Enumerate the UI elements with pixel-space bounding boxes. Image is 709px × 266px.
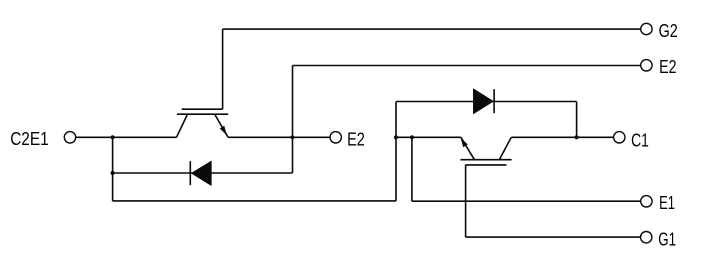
node D2 left junction [111,171,115,175]
svg-text:G1: G1 [658,229,676,249]
wire diode row (D2 horizontal run) [113,172,293,174]
wire G2 gate lead (vertical) [222,29,224,109]
wire G1 (horizontal to G1 terminal) [466,236,641,238]
wire E2 riser (vertical up to top E2 run) [292,66,294,138]
node E-node left junction [394,135,398,139]
wire Q1 collector to C1 terminal [511,136,613,138]
diode D1 (anti-parallel, cathode right) [473,89,494,114]
wire E2 top run (horizontal to E2 terminal upper right) [293,65,641,67]
terminal E1 [641,196,652,207]
wire G2 (top horizontal to G2 terminal) [223,28,641,30]
svg-text:E1: E1 [659,193,675,213]
terminal E2 (mid left) [330,132,341,143]
node C1 junction [575,135,579,139]
wire E-node horizontal to Q1 emitter [396,136,461,138]
wire D2 riser (vertical from E2 node down to diode row) [292,137,294,173]
svg-text:E2: E2 [659,57,676,77]
transistor Q2 (IGBT, left half) [177,109,229,137]
wire right section left riser (vertical) [395,102,397,201]
wire bottom rail (C2E1 node to right section riser) [113,200,396,202]
wire Q2 emitter to E2 terminal [228,136,330,138]
terminal C2E1 [64,132,75,143]
svg-text:C1: C1 [631,131,649,151]
svg-text:C2E1: C2E1 [10,129,49,149]
wire C2E1 node drop (vertical to bottom rail) [112,137,114,201]
terminal C1 [614,132,625,143]
diode D2 (anti-parallel, cathode left) [190,161,211,186]
svg-text:G2: G2 [659,21,678,41]
wire E1 drop (vertical) [411,137,413,201]
node E2 junction (4-way) [290,135,294,139]
wire C1 riser (vertical from top run down to C1 row) [576,102,578,138]
node C2E1 junction on main wire [111,135,115,139]
node E1 junction [410,135,414,139]
wire top run of right section (to D1) [396,101,577,103]
wire G1 gate lead (vertical) [465,165,467,237]
wire C2E1 terminal to Q2 collector [76,136,176,138]
terminal E2 (upper right) [641,60,652,71]
terminal G1 [641,232,652,243]
svg-text:E2: E2 [347,130,365,150]
wire E1 (horizontal to E1 terminal) [412,200,641,202]
transistor Q1 (IGBT, right half, flipped) [460,137,511,165]
terminal G2 [641,23,652,34]
